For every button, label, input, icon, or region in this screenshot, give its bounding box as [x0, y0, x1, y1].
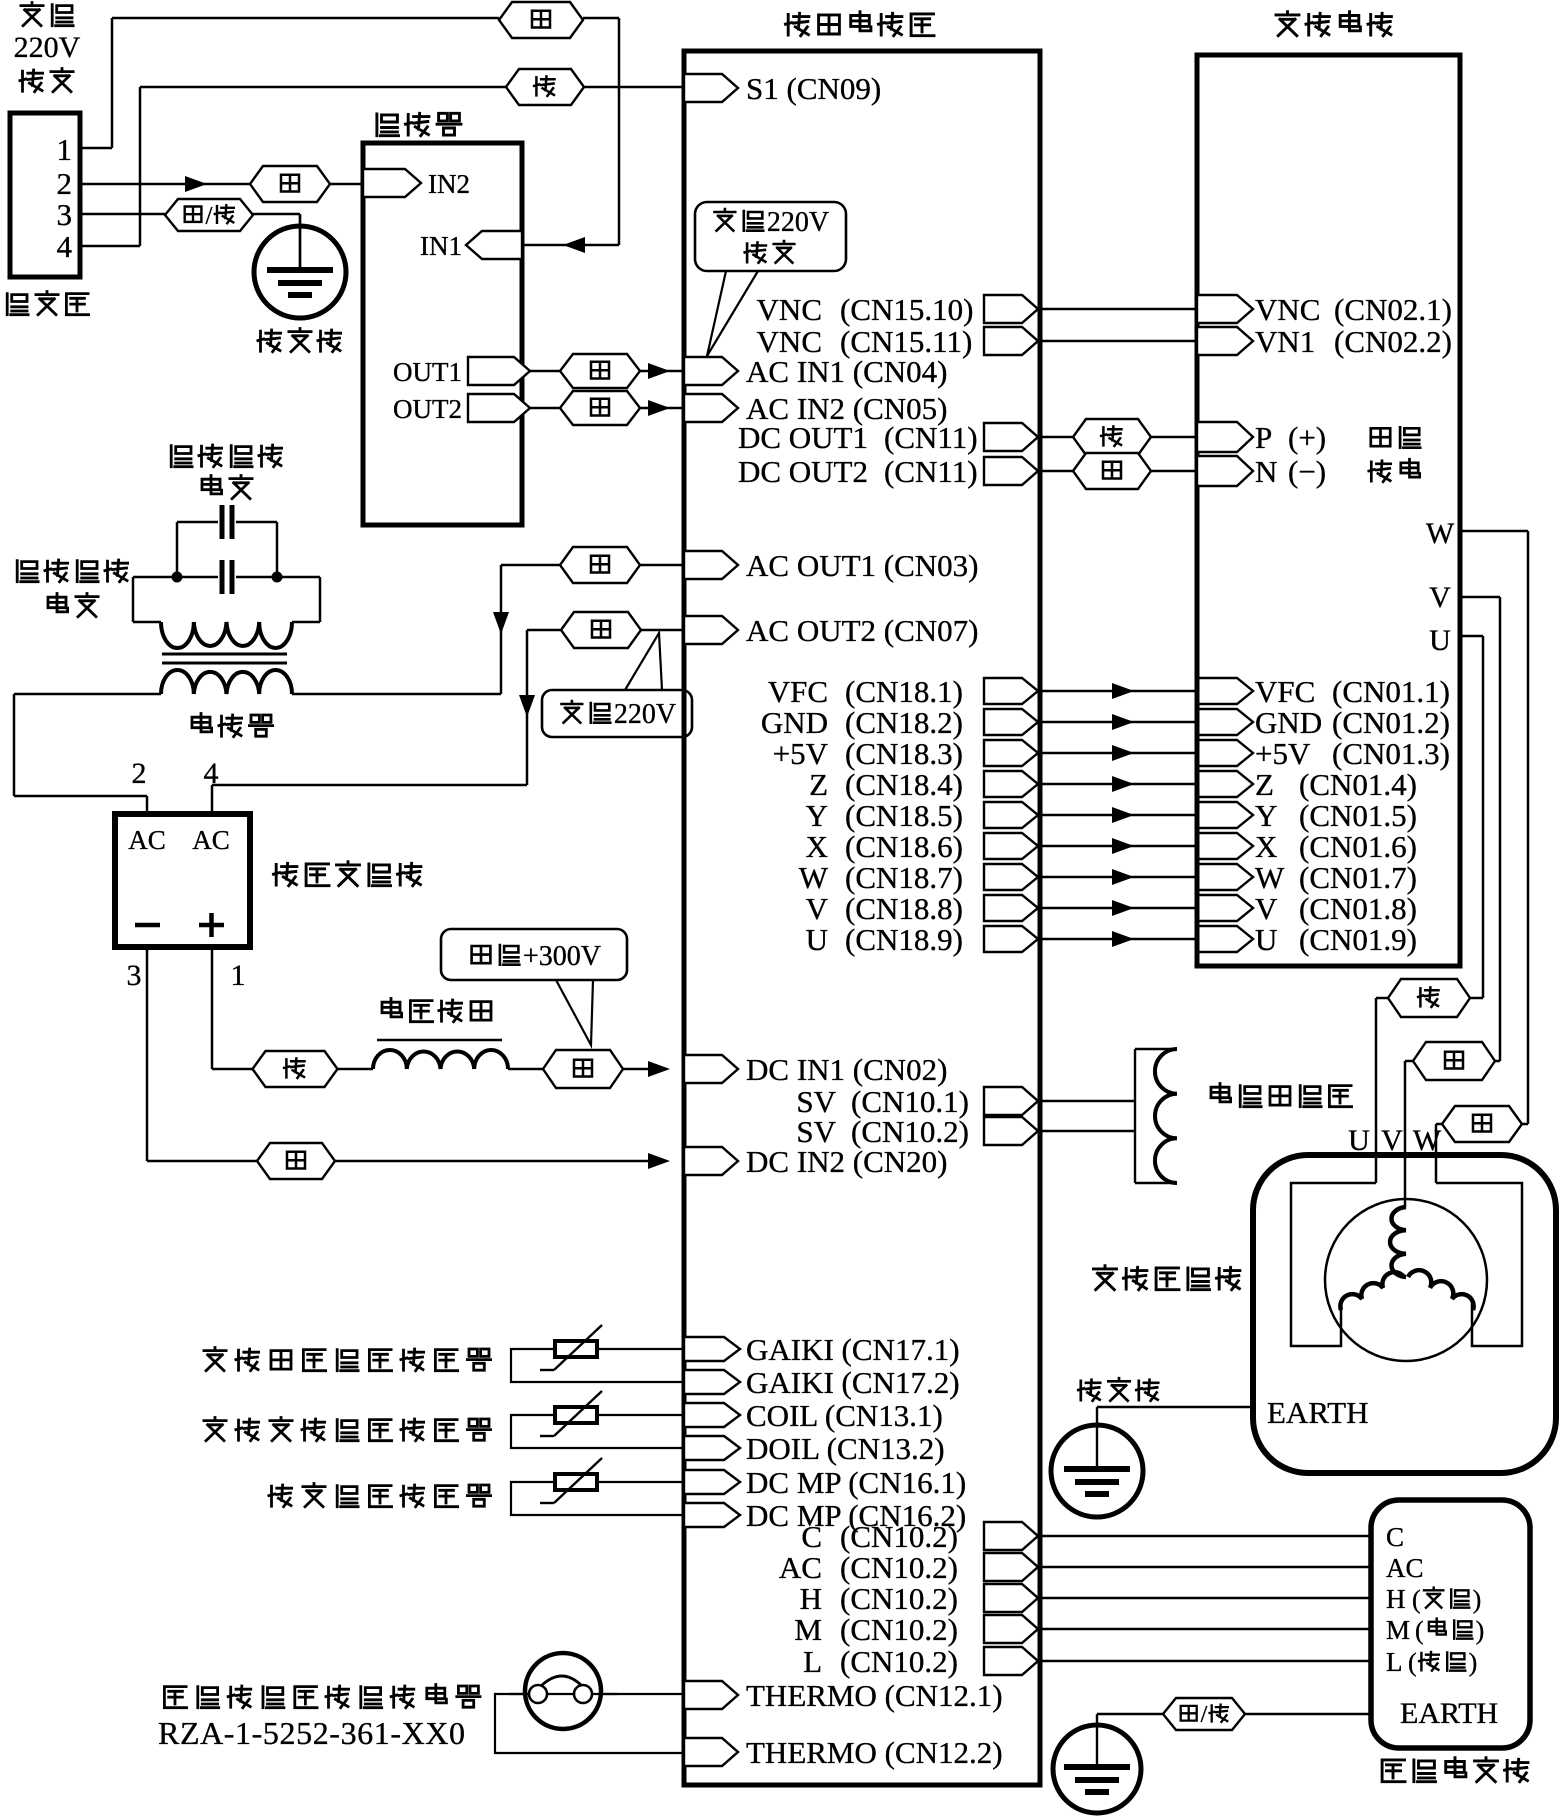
label 电抗器 [192, 714, 212, 732]
wire H to fan motor [1040, 1597, 1371, 1600]
connector AC OUT1 (CN03) [684, 551, 738, 579]
sensor DC MP (CN16.1) [684, 1470, 740, 1494]
svg-text:VN1: VN1 [1255, 324, 1315, 359]
wire DC OUT2 to N via 黑 [1040, 470, 1073, 473]
svg-text:(CN02.1): (CN02.1) [1334, 292, 1452, 327]
arrowhead [1112, 869, 1134, 885]
inverter connector X (CN01.6) [1197, 833, 1253, 859]
inverter connector GND (CN01.2) [1197, 709, 1253, 735]
filter pin OUT1 [468, 357, 530, 385]
svg-text:EARTH: EARTH [1267, 1395, 1368, 1430]
wire ground to compressor EARTH [1097, 1406, 1253, 1409]
svg-text:M: M [1386, 1615, 1410, 1645]
discharge temp sensor loop [511, 1482, 684, 1515]
connector DC IN2 (CN20) [684, 1147, 738, 1175]
inverter connector V (CN01.8) [1197, 895, 1253, 921]
svg-text:COIL (CN13.1): COIL (CN13.1) [746, 1398, 943, 1433]
noise filter box [363, 143, 522, 525]
svg-text:V: V [1255, 891, 1278, 926]
svg-text:P: P [1255, 420, 1272, 455]
svg-text:Z: Z [1255, 767, 1274, 802]
svg-text:DC MP (CN16.1): DC MP (CN16.1) [746, 1465, 966, 1500]
svg-text:RZA-1-5252-361-XX0: RZA-1-5252-361-XX0 [158, 1715, 466, 1751]
reactor top winding [133, 621, 161, 624]
connector U (CN18.9) [984, 926, 1038, 952]
wire pin2 to hexagon 白 to IN2 [80, 183, 250, 186]
wire VNC2 to inverter [1040, 340, 1197, 343]
wire C to fan motor [1040, 1535, 1371, 1538]
svg-text:VFC: VFC [1255, 674, 1315, 709]
connector VFC (CN18.1) [984, 678, 1038, 704]
sensor COIL (CN13.1) [684, 1403, 740, 1427]
svg-text:(CN01.9): (CN01.9) [1299, 922, 1417, 957]
inverter compressor 变频压缩机 body [1253, 1155, 1556, 1473]
svg-text:(CN01.8): (CN01.8) [1299, 891, 1417, 926]
svg-text:DC IN2 (CN20): DC IN2 (CN20) [746, 1144, 948, 1179]
hexagon wire tag 黄 [543, 1050, 623, 1088]
label 室外环境温度传感器 [204, 1348, 226, 1371]
svg-text:(CN18.8): (CN18.8) [845, 891, 963, 926]
svg-text:H: H [1386, 1584, 1406, 1614]
connector X (CN18.6) [984, 833, 1038, 859]
label 压缩机过载保护继电器 [164, 1687, 186, 1708]
wire pin4 of bridge to AC OUT2 [212, 784, 527, 787]
wire V to inverter [1040, 907, 1197, 910]
svg-text:2: 2 [57, 166, 73, 201]
wire W to inverter [1040, 876, 1197, 879]
wire VNC1 to inverter [1040, 308, 1197, 311]
svg-text:Y: Y [1255, 798, 1277, 833]
svg-text:): ) [1469, 1648, 1478, 1677]
overload relay loop [495, 1694, 684, 1753]
svg-text:(CN10.2): (CN10.2) [840, 1519, 958, 1554]
svg-text:(CN15.10): (CN15.10) [840, 292, 973, 327]
svg-text:GAIKI (CN17.1): GAIKI (CN17.1) [746, 1332, 960, 1367]
terminal block 端子板 [10, 113, 80, 277]
svg-text:(CN18.6): (CN18.6) [845, 829, 963, 864]
label 排气温度传感器 [269, 1485, 292, 1507]
connector V (CN18.8) [984, 895, 1038, 921]
callout AC220V input to AC IN1 [707, 271, 758, 356]
arrowhead [1112, 900, 1134, 916]
wires SV to four-way valve [1040, 1100, 1135, 1103]
inverter circuit 变频电路 [1276, 12, 1299, 36]
overload protector symbol [525, 1653, 601, 1729]
arrowhead [1112, 714, 1134, 730]
control circuit board 控制电路板 [786, 13, 809, 35]
outdoor pipe temp sensor loop [511, 1415, 684, 1448]
svg-text:DOIL (CN13.2): DOIL (CN13.2) [746, 1431, 945, 1466]
inverter connector VFC (CN01.1) [1197, 678, 1253, 704]
svg-text:IN1: IN1 [420, 231, 462, 261]
label 风扇电动机 [1382, 1760, 1405, 1782]
arrowhead into DC IN1 [648, 1061, 670, 1077]
svg-text:U: U [806, 922, 828, 957]
svg-text:220V: 220V [767, 207, 829, 238]
capacitor C-mid on loop [133, 576, 218, 579]
wire cap to node [176, 522, 179, 577]
svg-text:C: C [801, 1519, 822, 1554]
label 变频压缩机 [1094, 1266, 1117, 1290]
svg-text:VNC: VNC [757, 292, 822, 327]
svg-text:(CN10.2): (CN10.2) [840, 1550, 958, 1585]
wire AC to fan motor [1040, 1566, 1371, 1569]
wire bridge - to DC IN2 [146, 947, 149, 1161]
hexagon wire tag 白 [560, 391, 640, 425]
rotor circle [1325, 1199, 1487, 1361]
connector Y (CN18.5) [984, 802, 1038, 828]
hexagon wire tag 黄/绿 [165, 199, 253, 231]
connector SV (CN10.1) [984, 1087, 1038, 1115]
svg-text:3: 3 [57, 197, 73, 232]
svg-text:1: 1 [57, 132, 73, 167]
svg-text:(CN01.3): (CN01.3) [1332, 736, 1450, 771]
svg-text:S1 (CN09): S1 (CN09) [746, 71, 881, 106]
svg-text:): ) [1476, 1616, 1485, 1645]
connector DC IN1 (CN02) [684, 1055, 738, 1083]
resonant loop sides [132, 577, 135, 622]
svg-text:+300V: +300V [523, 941, 601, 972]
hexagon wire tag 白 [561, 612, 641, 648]
arrowhead down on AC OUT1 wire [493, 612, 509, 634]
hexagon wire tag 蓝 (W phase) [1522, 1123, 1528, 1126]
svg-text:(CN11): (CN11) [884, 420, 978, 455]
connector VN1 (CN02.2) [1197, 327, 1253, 355]
fan motor box 风扇电动机 [1371, 1500, 1530, 1748]
arrowhead [1112, 776, 1134, 792]
svg-text:THERMO (CN12.2): THERMO (CN12.2) [746, 1735, 1003, 1770]
connector GND (CN18.2) [984, 709, 1038, 735]
connector +5V (CN18.3) [984, 740, 1038, 766]
svg-text:3: 3 [127, 959, 142, 992]
thermistor 2 [555, 1407, 597, 1423]
svg-text:GND: GND [761, 705, 828, 740]
svg-text:GAIKI (CN17.2): GAIKI (CN17.2) [746, 1365, 960, 1400]
wire Z to inverter [1040, 783, 1197, 786]
callout DC+300V to 黄 wire [556, 980, 593, 1045]
svg-text:L: L [1386, 1647, 1403, 1677]
svg-text:2: 2 [132, 757, 147, 790]
svg-text:Z: Z [809, 767, 828, 802]
connector VNC (CN02.1) [1197, 295, 1253, 323]
outdoor ambient temp sensor loop [511, 1349, 684, 1382]
svg-text:(CN10.2): (CN10.2) [840, 1612, 958, 1647]
capacitor C-top [177, 521, 218, 524]
label 机壳地 [258, 330, 281, 352]
svg-text:220V: 220V [14, 31, 81, 64]
electromagnetic four-way valve 电磁四通阀 [1134, 1049, 1136, 1183]
filter pin OUT2 [468, 394, 530, 422]
svg-text:VFC: VFC [768, 674, 828, 709]
svg-text:AC: AC [192, 825, 230, 855]
arrowhead into IN1 [563, 237, 585, 253]
hexagon wire tag 黑 [1073, 453, 1151, 489]
label AC 220V input [21, 3, 43, 26]
svg-text:L: L [803, 1644, 822, 1679]
connector W (CN18.7) [984, 864, 1038, 890]
svg-text:(CN18.9): (CN18.9) [845, 922, 963, 957]
svg-text:M: M [794, 1612, 822, 1647]
svg-text:(CN11): (CN11) [884, 454, 978, 489]
svg-text:AC: AC [128, 825, 166, 855]
reactor bottom winding [161, 670, 292, 694]
hexagon wire tag 红 (U phase) [1470, 997, 1483, 1000]
chassis ground at compressor 机壳地 [1078, 1380, 1100, 1401]
svg-text:(CN02.2): (CN02.2) [1334, 324, 1452, 359]
svg-text:THERMO (CN12.1): THERMO (CN12.1) [746, 1678, 1003, 1713]
svg-text:V: V [806, 891, 829, 926]
stator right bracket [1436, 1183, 1522, 1346]
label 室外管路温度传感器 [204, 1418, 226, 1441]
svg-text:OUT1: OUT1 [393, 357, 462, 387]
connector THERMO (CN12.1) [684, 1681, 738, 1709]
svg-text:(CN18.7): (CN18.7) [845, 860, 963, 895]
label 滤波器 [377, 114, 399, 136]
label 谐振滤波电容 (top) [171, 446, 192, 467]
hexagon wire tag 白 [250, 166, 330, 202]
label 端子板 [7, 294, 28, 315]
wire OUT2 to AC IN2 [530, 407, 560, 410]
svg-text:W: W [1426, 517, 1455, 550]
svg-text:DC IN1 (CN02): DC IN1 (CN02) [746, 1052, 948, 1087]
connector THERMO (CN12.2) [684, 1738, 738, 1766]
arrowhead on pin2 wire [185, 176, 207, 192]
arrowhead [1112, 838, 1134, 854]
svg-text:): ) [1473, 1585, 1482, 1614]
connector AC IN2 (CN05) [684, 394, 738, 422]
svg-text:AC IN1 (CN04): AC IN1 (CN04) [746, 354, 948, 389]
svg-text:4: 4 [204, 757, 219, 790]
svg-text:(: ( [1412, 1585, 1421, 1614]
inverter connector U (CN01.9) [1197, 926, 1253, 952]
wire +5V to inverter [1040, 752, 1197, 755]
svg-text:U: U [1255, 922, 1277, 957]
svg-text:(CN01.4): (CN01.4) [1299, 767, 1417, 802]
wire AC OUT1 via 黑 [640, 564, 684, 567]
svg-text:+5V: +5V [773, 736, 829, 771]
wire U to inverter [1040, 938, 1197, 941]
arrowhead down on AC OUT2 wire [519, 695, 535, 717]
motor winding W (right-bottom) [1408, 1270, 1474, 1310]
wire VFC to inverter [1040, 690, 1197, 693]
reactor core [162, 653, 287, 656]
svg-text:(CN01.5): (CN01.5) [1299, 798, 1417, 833]
wire GND to inverter [1040, 721, 1197, 724]
svg-text:EARTH: EARTH [1400, 1697, 1498, 1730]
sensor GAIKI (CN17.1) [684, 1337, 740, 1361]
svg-text:N: N [1255, 454, 1277, 489]
connector N (-) supply [1197, 456, 1253, 486]
arrowhead into DC IN2 [648, 1153, 670, 1169]
svg-text:(CN10.2): (CN10.2) [840, 1644, 958, 1679]
svg-text:(+): (+) [1288, 420, 1326, 455]
svg-text:IN2: IN2 [428, 169, 470, 199]
connector AC OUT2 (CN07) [684, 616, 738, 644]
svg-text:AC OUT2 (CN07): AC OUT2 (CN07) [746, 613, 979, 648]
svg-text:AC: AC [779, 1550, 822, 1585]
svg-text:(CN01.2): (CN01.2) [1332, 705, 1450, 740]
inverter connector W (CN01.7) [1197, 864, 1253, 890]
hexagon wire tag 黑 [560, 547, 640, 583]
hexagon wire tag 黑 [560, 354, 640, 388]
arrowhead [1112, 931, 1134, 947]
wire pin4 to hexagon 红 to S1 [80, 245, 140, 248]
svg-text:OUT2: OUT2 [393, 394, 462, 424]
connector P (+) DC [1197, 422, 1253, 452]
wire reactor right to AC OUT1 [292, 693, 501, 696]
arrowhead [1112, 683, 1134, 699]
bridge rectifier 桥式整流堆 [115, 814, 250, 947]
svg-text:(: ( [1408, 1648, 1417, 1677]
svg-text:(−): (−) [1288, 454, 1326, 489]
svg-text:(CN18.4): (CN18.4) [845, 767, 963, 802]
connector M (CN10.2) [984, 1615, 1038, 1643]
svg-text:1: 1 [231, 959, 246, 992]
svg-text:(CN01.1): (CN01.1) [1332, 674, 1450, 709]
svg-text:(CN18.3): (CN18.3) [845, 736, 963, 771]
svg-text:/: / [206, 203, 213, 230]
chassis ground symbol 机壳地 [254, 226, 346, 318]
wire reactor left to bridge pin2 [14, 693, 161, 696]
arrowhead into AC IN2 [648, 400, 670, 416]
stator left bracket [1291, 1183, 1376, 1346]
svg-text:V: V [1429, 581, 1451, 614]
hexagon wire tag 棕 [1073, 419, 1151, 455]
compressor wires re-draw inside [1375, 1155, 1378, 1183]
connector H (CN10.2) [984, 1584, 1038, 1612]
chassis ground bottom [1053, 1725, 1141, 1813]
svg-text:H: H [800, 1581, 822, 1616]
wire X to inverter [1040, 845, 1197, 848]
connector C (CN10.2) [984, 1522, 1038, 1550]
svg-text:X: X [806, 829, 828, 864]
svg-text:AC: AC [1386, 1553, 1424, 1583]
svg-text:(CN18.2): (CN18.2) [845, 705, 963, 740]
hexagon wire tag 黑 [257, 1143, 335, 1179]
label 桥式整流堆 [274, 863, 297, 885]
svg-text:/: / [1201, 1702, 1208, 1728]
sensor DC MP (CN16.2) [684, 1503, 740, 1527]
svg-text:Y: Y [806, 798, 828, 833]
wire OUT1 to AC IN1 [530, 370, 560, 373]
connector L (CN10.2) [984, 1647, 1038, 1675]
junction node right [272, 572, 283, 583]
wire M to fan motor [1040, 1628, 1371, 1631]
sensor DOIL (CN13.2) [684, 1436, 740, 1460]
inverter connector Y (CN01.5) [1197, 802, 1253, 828]
svg-text:(CN01.6): (CN01.6) [1299, 829, 1417, 864]
wire Y to inverter [1040, 814, 1197, 817]
connector AC IN1 (CN04) [684, 357, 738, 385]
filter pin IN1 [466, 231, 522, 259]
connector Z (CN18.4) [984, 771, 1038, 797]
connector S1 (CN09) [684, 74, 738, 102]
svg-text:VNC: VNC [1255, 292, 1320, 327]
wire L to fan motor [1040, 1660, 1371, 1663]
wire bridge + to inductor to DC IN1 [211, 947, 214, 1069]
hexagon wire tag 红 [506, 69, 584, 105]
sensor GAIKI (CN17.2) [684, 1370, 740, 1394]
thermistor 3 [555, 1474, 597, 1490]
arrowhead into AC IN1 [648, 363, 670, 379]
svg-text:W: W [1255, 860, 1285, 895]
inverter connector Z (CN01.4) [1197, 771, 1253, 797]
svg-text:(CN18.1): (CN18.1) [845, 674, 963, 709]
wire DC OUT1 to P via 棕 [1040, 436, 1073, 439]
svg-text:AC OUT1 (CN03): AC OUT1 (CN03) [746, 548, 979, 583]
label 谐振滤波电容 (left) [17, 561, 38, 582]
motor winding U (left-bottom) [1340, 1272, 1404, 1310]
svg-text:X: X [1255, 829, 1277, 864]
filter pin IN2 [363, 169, 421, 197]
wire pin1 to hexagon 黑 to IN1 [80, 147, 112, 150]
hexagon wire tag 黑 [499, 2, 583, 38]
inductor coil 电感线圈 [382, 999, 402, 1017]
svg-text:(: ( [1415, 1616, 1424, 1645]
connector SV (CN10.2) [984, 1117, 1038, 1145]
connector VNC (CN15.11) [984, 327, 1038, 355]
svg-text:GND: GND [1255, 705, 1322, 740]
svg-text:(CN01.7): (CN01.7) [1299, 860, 1417, 895]
motor winding V (top) [1390, 1207, 1406, 1277]
connector AC (CN10.2) [984, 1553, 1038, 1581]
svg-text:DC OUT1: DC OUT1 [738, 420, 868, 455]
thermistor 1 [555, 1341, 597, 1357]
svg-text:(CN10.2): (CN10.2) [840, 1581, 958, 1616]
wire to fan EARTH [1245, 1713, 1371, 1716]
svg-text:DC OUT2: DC OUT2 [738, 454, 868, 489]
svg-text:+5V: +5V [1255, 736, 1311, 771]
wire pin3 to hexagon 黄/绿 to chassis ground [80, 213, 165, 216]
callout AC220V to AC OUT2 wire [625, 633, 662, 690]
svg-text:W: W [799, 860, 829, 895]
wire AC OUT2 via 白 [641, 629, 684, 632]
connector VNC (CN15.10) [984, 295, 1038, 323]
svg-text:C: C [1386, 1522, 1404, 1552]
connector DC OUT2 (CN11) [984, 457, 1038, 485]
svg-text:(CN18.5): (CN18.5) [845, 798, 963, 833]
svg-text:U: U [1429, 624, 1451, 657]
connector DC OUT1 (CN11) [984, 423, 1038, 451]
label 电磁四通阀 [1211, 1084, 1231, 1102]
hexagon wire tag 黄/绿 [1163, 1698, 1245, 1730]
hexagon wire tag 白 (V phase) [1495, 1060, 1500, 1063]
svg-text:220V: 220V [614, 699, 676, 730]
arrowhead [1112, 807, 1134, 823]
junction node left [172, 572, 183, 583]
svg-text:4: 4 [57, 229, 73, 264]
arrowhead [1112, 745, 1134, 761]
inverter connector +5V (CN01.3) [1197, 740, 1253, 766]
hexagon wire tag 红 [253, 1051, 338, 1087]
